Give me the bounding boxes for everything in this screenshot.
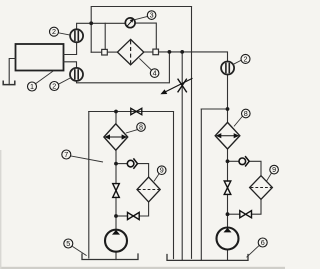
wire lower pump to riser [77,52,170,83]
right tank [167,255,248,261]
pump 6 to tank [227,249,229,260]
pump P2a (upper small pump 2) [70,29,83,42]
left branch drop to filter 8 [115,112,117,124]
filter 8 left diamond [104,124,128,150]
label 3 [135,11,156,20]
svg-text:2: 2 [244,54,248,63]
gauge 3 [125,18,135,28]
filter 9 right diamond [250,176,273,200]
left filter 8 to check node [115,150,117,183]
left standpipe [88,112,90,259]
left bypass valve to main [116,215,128,217]
bottom scan edge [0,267,285,269]
bypass valve left horizontal [128,212,140,219]
gauge line right [135,23,156,49]
pump P2c (right small pump 2) [221,62,234,75]
left filter 9 down to bypass [139,202,148,216]
svg-text:1: 1 [30,82,34,91]
svg-text:3: 3 [150,11,154,20]
label 2 upper [50,27,71,36]
right filter 9 down to bypass [252,199,262,214]
label 2 right [233,54,250,64]
node A dot [89,21,93,25]
filter 8 right diamond [215,122,240,149]
bypass valve right horizontal [240,211,252,218]
label 2 lower [50,78,71,91]
right rail dot [226,107,230,111]
outer loop left vertical and top line [91,7,191,53]
left scan edge [0,150,1,269]
pump P2b (lower small pump 2) [70,68,83,81]
pump 5 to tank [115,252,117,260]
label 9 right [267,165,279,181]
left main valve to pump 5 [115,197,117,229]
filter 9 left diamond [137,177,160,202]
label 9 left [154,166,166,182]
label 8 right [234,109,250,126]
label 6 [247,238,268,257]
svg-text:2: 2 [52,27,56,36]
right check to filter 9 [249,161,261,176]
svg-text:7: 7 [64,150,68,159]
left tank [82,254,138,260]
wire filter 4 to right square [144,51,153,53]
check valve right [239,156,249,166]
wire rect to upper pump [64,42,77,54]
line C long vertical [191,7,193,259]
port square L [102,49,108,55]
throttle arrow [160,78,192,94]
svg-text:2: 2 [52,82,56,91]
rail dot 2 [180,50,184,54]
right rail [201,108,227,110]
check valve left [127,158,137,168]
wire left vert to square [91,51,102,53]
filter 8 right arrow [216,133,240,138]
pump 5 [105,230,127,252]
left branch rail dot [114,110,118,114]
right main valve to pump 6 [227,194,229,227]
right branch filter 8 to valve [227,149,229,181]
left rail [89,111,174,113]
right check branch [228,160,239,162]
wire right pump down to right rail node [227,75,229,123]
wire square to filter 4 [107,51,117,53]
throttle X on line B [178,79,187,93]
top rail to right pump [159,52,228,62]
component M1 (box 1) [16,44,64,71]
shut valve left vertical [113,184,120,198]
right bypass valve to main [228,213,240,215]
rail dot 1 [168,50,172,54]
left check node dot [114,162,118,166]
drain bracket wire [9,59,15,85]
label 5 [64,239,87,256]
line D long vertical [200,109,202,260]
svg-text:8: 8 [139,123,143,132]
pump 6 [217,228,239,250]
left check to filter 9 [138,164,149,178]
wire rect to lower pump [64,62,77,68]
filter 4 diamond [117,39,143,64]
right bypass node dot [226,212,230,216]
wire upper pump to node A [77,23,92,29]
svg-text:4: 4 [153,69,157,78]
left bypass node dot [114,214,118,218]
svg-text:9: 9 [160,166,164,175]
svg-text:8: 8 [244,109,248,118]
drain tank foot [3,81,15,84]
right check node dot [226,159,230,163]
line A long vertical [173,112,175,259]
label 1 [28,71,54,91]
filter 8 left arrow [104,134,127,139]
label 7 [62,150,103,162]
label 4 [139,58,159,77]
line B long vertical [181,52,183,261]
wire node A to gauge corner [91,23,105,49]
svg-text:5: 5 [66,239,70,248]
svg-text:6: 6 [261,238,265,247]
rail valve (left, bowtie) [131,108,142,114]
gauge line left [105,22,125,24]
port square R [153,49,159,55]
svg-text:9: 9 [272,165,276,174]
label 8 left [126,123,145,134]
left check branch [116,163,127,165]
shut valve right vertical [224,181,231,194]
